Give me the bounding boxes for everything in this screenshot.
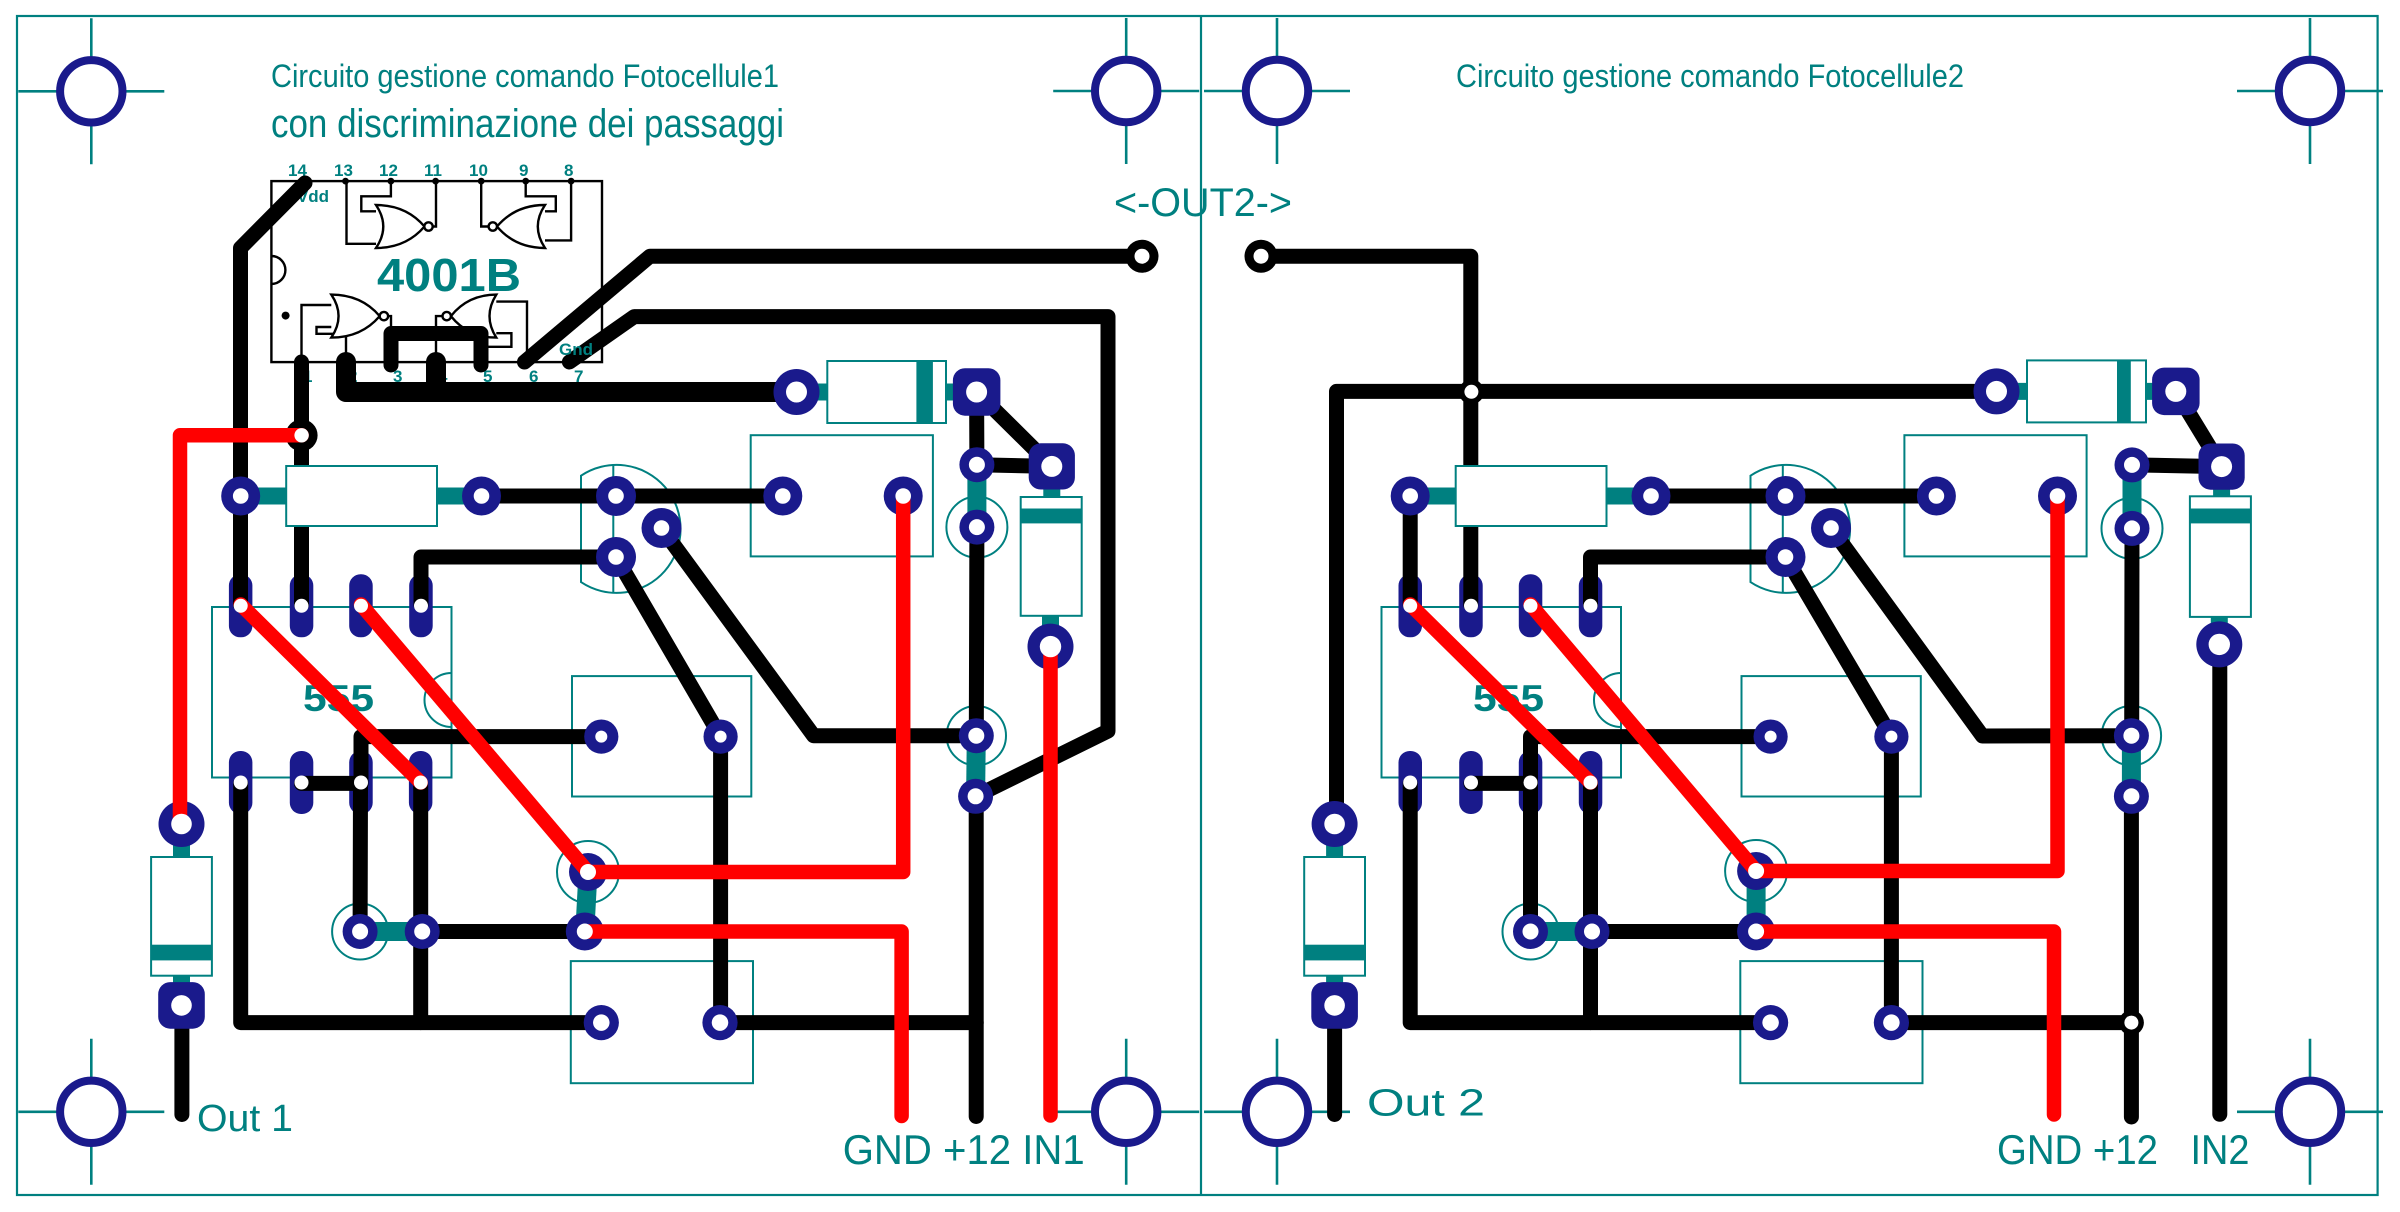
transistor Q2 outline (board 2) (1751, 465, 1851, 593)
wire jumper W6 (board 2) (1737, 852, 1775, 951)
wire jumper W7 circle mark (1503, 904, 1559, 960)
wire Q1 collector to jumper W1 (662, 528, 977, 736)
wire U2 pin3 to pin5 bridge (391, 334, 481, 366)
wire J6 right pad to +12 via (1891, 1015, 2131, 1030)
wire Q1 to box J2 right pad (616, 557, 721, 737)
wire J5 to J6 right pads (1884, 737, 1899, 1023)
wire U2 pin14 to R1/U1 pin (241, 183, 306, 605)
wire jumper W2 (board 1) (566, 853, 607, 951)
mounting hole top-center-left (1053, 18, 1199, 164)
wire Q2 collector to jumper W4 (1831, 528, 2131, 736)
svg-text:13: 13 (334, 161, 353, 180)
board divider line (1200, 16, 1202, 1195)
resistor R2 (board 2) (1391, 466, 1671, 526)
wire U1 pin5 down to bottom bus (413, 783, 428, 1022)
svg-text:con discriminazione dei passag: con discriminazione dei passaggi (271, 102, 784, 146)
svg-text:10: 10 (469, 161, 488, 180)
via junction on U2 pin1 net (286, 419, 318, 451)
wire D3 to Out 2 stub (1327, 1006, 1342, 1115)
wire U1 pin6 down to jumper W3 (353, 783, 368, 931)
wire jumper W2 circle mark (557, 841, 619, 903)
NOR gate U2D (pins 5,6 -> 4) (436, 295, 527, 361)
mounting hole top-right (2237, 18, 2383, 164)
capacitor C2 (board 2) (2190, 444, 2251, 668)
svg-text:IN2: IN2 (2191, 1126, 2250, 1173)
wire jumper W8 circle mark (946, 497, 1007, 558)
diode D3 (board 2, Out 2) (1304, 801, 1365, 1029)
wire jumper W8 down to jumper W1 (+12 feed) (969, 527, 985, 736)
wire R2 to Q2 to K2 (1651, 489, 1936, 504)
resistor R1 (board 1) (221, 466, 501, 526)
NOR gate U2A (pins 12,13 -> 11) (347, 182, 437, 248)
svg-text:4001B: 4001B (377, 249, 521, 301)
IC U3 555 outline (board 2) (1382, 607, 1622, 778)
wire U3 pin6 down to jumper W7 (1523, 783, 1538, 931)
open pad OUT1 (board 1) (1126, 240, 1159, 273)
connector box J2 outline (board 1) (572, 676, 751, 796)
pin marks U2 top row (342, 178, 574, 185)
wire jumper W5 (board 2) (2115, 447, 2150, 546)
wire U2 pin2/pin4 supply to D2 (346, 362, 797, 392)
connector J5 pads (1754, 720, 1909, 754)
relay K2 pads (1917, 477, 2077, 516)
wire U2 pin4 stub (426, 362, 446, 392)
wire jumper W4 to +12 stub (2124, 796, 2139, 1117)
red wire C1 to IN1 stub (1043, 647, 1058, 1116)
wire jumper W6 circle mark (1725, 840, 1787, 902)
wire jumper W4 circle mark (2102, 706, 2161, 765)
red wire K2 to jumper W6 (1756, 496, 2057, 871)
open pad OUT2 feed (board 2) (1245, 240, 1278, 273)
wire OUT2 open pad to U3 pin2 (1261, 256, 1471, 604)
via junction on board 2 +12 net (2119, 1010, 2144, 1035)
svg-text:Out 1: Out 1 (197, 1098, 293, 1140)
red wire U1 pin6 to jumper W2 (361, 605, 588, 873)
capacitor C1 (board 1) (1021, 443, 1082, 669)
svg-text:Gnd: Gnd (559, 340, 593, 359)
wire U1 pin6 up to J2 left pad (361, 737, 601, 784)
IC U1 555 pads (board 1) (229, 574, 433, 814)
pad drill holes (171, 249, 2232, 1031)
wire jumper W7 (board 2) (1513, 914, 1610, 949)
connector J6 pads (1753, 1005, 1909, 1040)
wire jumper W1 (board 1, +12) (958, 718, 994, 814)
wire U2 pin7 to jumper W1 (569, 317, 1108, 797)
svg-text:12: 12 (379, 161, 398, 180)
mounting hole bottom-center-right (1204, 1039, 1350, 1185)
red wire jumper W6 to GND stub (board 2) (1756, 932, 2054, 1115)
connector box J5 outline (board 2) (1742, 676, 1921, 796)
wire J3 right pad to +12 bus (720, 1015, 976, 1030)
svg-text:GND +12: GND +12 (1997, 1126, 2158, 1173)
connector J3 pads (584, 1005, 738, 1040)
relay K1 pads (763, 477, 922, 516)
wire U3 pin8 to J6 left pad (1410, 783, 1770, 1022)
svg-text:9: 9 (519, 161, 528, 180)
red wire via to D1 (board 1) (180, 435, 302, 824)
wire U1 pin8 to J3 left pad (241, 783, 602, 1022)
diode D1 (board 1, Out 1) (151, 801, 212, 1029)
transistor Q2 pads (1766, 476, 1852, 577)
svg-text:GND +12 IN1: GND +12 IN1 (843, 1126, 1085, 1173)
svg-text:Out 2: Out 2 (1367, 1083, 1485, 1125)
mounting hole top-center-right (1204, 18, 1350, 164)
IC U1 555 outline (board 1) (212, 607, 452, 778)
NOR gate U2B (pins 8,9 -> 10) (481, 182, 571, 248)
pin number labels U2 (288, 161, 583, 386)
IC U2 4001B outline (271, 181, 602, 362)
wire D4 to D3/Out2 column (1337, 391, 1997, 824)
red wire U3 pin8 to pin5 (1410, 605, 1590, 783)
wire D2 square pad down to jumper W8 (969, 392, 984, 465)
red wire U1 pin8 to pin5 (241, 605, 421, 783)
wire C2 bottom pad to IN2 stub (2212, 644, 2227, 1114)
wire U3 pin5 down to bottom bus (1583, 783, 1598, 1022)
connector box J3 outline (board 1) (571, 961, 753, 1083)
wire U1 pin4 to Q1 base (421, 557, 616, 605)
red wire K1 to jumper W2 (588, 496, 903, 872)
mounting hole bottom-center-left (1053, 1039, 1199, 1185)
wire R1 to Q1 to K1 (482, 489, 783, 504)
mounting hole bottom-right (2237, 1039, 2383, 1185)
wire U3 pin4 to Q2 base (1591, 557, 1786, 605)
wire jumper W3 to jumper W2 (422, 924, 585, 939)
connector box J6 outline (board 2) (1740, 961, 1922, 1083)
svg-text:Circuito gestione comando Foto: Circuito gestione comando Fotocellule2 (1456, 58, 1964, 94)
wire jumper W1 circle mark (947, 706, 1006, 765)
red wire U3 pin6 to jumper W6 (1531, 605, 1757, 872)
via junction on board 2 top net (1459, 379, 1484, 404)
IC U3 555 pads (board 2) (1399, 574, 1603, 814)
wire U3 pin6 up to J5 left pad (1531, 737, 1771, 784)
red wire jumper W2 to GND stub (board 1) (585, 932, 902, 1117)
wire jumper W3 (board 1) (343, 914, 440, 949)
svg-text:8: 8 (564, 161, 573, 180)
wire D2 to C1 diagonal (977, 392, 1052, 466)
wire D1 to Out 1 stub (174, 1006, 189, 1115)
wire jumper W5 to jumper W4 (2124, 528, 2139, 735)
connector J2 pads (584, 720, 738, 754)
wire J2 to J3 right pads (713, 737, 728, 1023)
wire jumper W7 to jumper W6 (1592, 924, 1756, 939)
transistor Q1 outline (board 1) (581, 465, 681, 593)
wire jumper W3 circle mark (332, 904, 388, 960)
diode D4 (board 2) (1974, 360, 2200, 422)
wire U2 pin1 to U1 pin2 (294, 362, 309, 605)
wire U3 pin7 to pin6 bridge (1471, 776, 1531, 791)
svg-text:11: 11 (424, 161, 442, 180)
wire Q2 to box J5 right pad (1786, 557, 1892, 737)
mounting hole top-left (18, 18, 164, 164)
wire +12 vertical stub (969, 796, 984, 1116)
wire jumper W5 to C2 top pad (2132, 465, 2222, 467)
diode D2 (board 1) (774, 361, 1001, 423)
wire R2 left pad to U3 pin1 (1403, 496, 1418, 605)
wire U1 pin7 to pin6 bridge (302, 776, 362, 791)
svg-text:Circuito gestione comando Foto: Circuito gestione comando Fotocellule1 (271, 58, 779, 94)
relay K1 outline (board 1) (751, 435, 933, 556)
NOR gate U2C (pins 1,2 -> 3) (302, 295, 392, 361)
transistor Q1 pads (596, 476, 682, 577)
wire jumper W4 (board 2, +12) (2114, 718, 2149, 814)
wire jumper W8 to C1 top pad (977, 465, 1052, 467)
wire D4 to C2 diagonal (2176, 391, 2222, 466)
wire U2 pin6 to OUT1 open pad (525, 256, 1143, 362)
wire jumper W8 (board 1) (959, 447, 994, 544)
svg-text:<-OUT2->: <-OUT2-> (1114, 181, 1292, 225)
wire jumper W5 circle mark (2102, 498, 2163, 559)
mounting hole bottom-left (18, 1039, 164, 1185)
relay K2 outline (board 2) (1904, 435, 2086, 556)
